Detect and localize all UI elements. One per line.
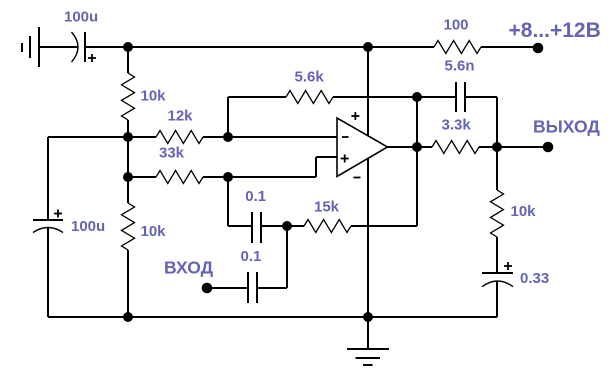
wire: top rail from R100 to +8...+12V terminal bbox=[481, 46, 538, 48]
svg-text:10k: 10k bbox=[141, 223, 167, 240]
svg-text:100: 100 bbox=[444, 17, 469, 34]
wire: left column from top node to upper 10k bbox=[127, 47, 129, 73]
wire: right column down to 10k bbox=[496, 147, 498, 190]
wire: node A to C3 bbox=[417, 96, 456, 98]
wire: down from C3 to right node bbox=[496, 97, 498, 147]
wire: bottom rail bbox=[48, 316, 497, 318]
op-amp negative supply mark bbox=[354, 177, 361, 179]
op-amp U1 bbox=[337, 112, 388, 178]
wire: feedback branch up from node row2 bbox=[227, 97, 229, 137]
wire: C3 right lead bbox=[465, 96, 497, 98]
svg-text:15k: 15k bbox=[314, 199, 340, 216]
capacitor C3 5.6n bbox=[456, 82, 465, 112]
wire: 33k left lead bbox=[128, 176, 156, 178]
resistor 10k (right, vertical) bbox=[491, 190, 504, 237]
svg-text:ВЫХОД: ВЫХОД bbox=[533, 117, 600, 137]
wire: 12k left lead bbox=[128, 136, 156, 138]
capacitor C2 100u (polarized, left vertical) bbox=[33, 210, 63, 233]
resistor 3.3k bbox=[432, 141, 479, 154]
wire: input terminal to C5 bbox=[207, 287, 248, 289]
node: right column top bbox=[492, 142, 502, 152]
node: divider row2 left bbox=[123, 132, 133, 142]
node: 33k / non-inverting branch bbox=[223, 172, 233, 182]
capacitor C4 0.1 (upper) bbox=[252, 212, 261, 243]
resistor 5.6k (feedback) bbox=[286, 91, 333, 104]
svg-text:0.1: 0.1 bbox=[245, 188, 266, 205]
wire: below C2 to bottom rail bbox=[47, 228, 49, 318]
wire: branch left from node row2 bbox=[48, 136, 128, 138]
wire: top supply rail from C1 to R100 bbox=[85, 46, 434, 48]
svg-text:100u: 100u bbox=[71, 218, 105, 235]
wire: to C4 left plate bbox=[228, 225, 252, 227]
wire: node A down through output node to feedback row bbox=[416, 97, 418, 226]
wire: 15k left lead bbox=[287, 225, 304, 227]
resistor 12k bbox=[156, 131, 203, 144]
svg-text:ВХОД: ВХОД bbox=[164, 258, 214, 278]
svg-text:3.3k: 3.3k bbox=[442, 117, 472, 134]
op-amp positive supply mark bbox=[351, 115, 359, 117]
wire: left column bottom to rail bbox=[127, 250, 129, 317]
resistor 15k bbox=[304, 220, 351, 233]
node: supply rail / op-amp V+ column bbox=[363, 42, 373, 52]
op-amp inverting input mark bbox=[342, 136, 349, 138]
wire: riser up to 15k node bbox=[286, 226, 288, 288]
ground (left, rotated, supply return) bbox=[22, 27, 39, 67]
resistor 10k (upper left, vertical) bbox=[122, 73, 135, 120]
svg-text:0.1: 0.1 bbox=[241, 248, 262, 265]
wire: C6 to bottom rail bbox=[496, 281, 498, 317]
node A: 5.6k / 5.6n junction bbox=[412, 92, 422, 102]
svg-text:10k: 10k bbox=[511, 203, 537, 220]
node: C4 / 15k junction bbox=[282, 221, 292, 231]
wire: step up to non-inverting level bbox=[315, 157, 317, 177]
capacitor C5 0.1 (input, lower) bbox=[248, 272, 257, 303]
svg-text:5.6n: 5.6n bbox=[445, 58, 475, 75]
node: op-amp output bbox=[412, 142, 422, 152]
wire: 5.6k right lead to node A bbox=[333, 96, 417, 98]
svg-text:10k: 10k bbox=[141, 88, 167, 105]
wire: to 5.6k left lead bbox=[228, 96, 286, 98]
op-amp non-inverting input mark bbox=[341, 158, 349, 160]
wire: C5 right plate to riser bbox=[257, 287, 287, 289]
wire: op-amp output bbox=[387, 146, 417, 148]
node: bottom rail left bbox=[123, 312, 133, 322]
node: top left supply bbox=[123, 42, 133, 52]
resistor 33k bbox=[156, 171, 203, 184]
node: divider row3 left bbox=[123, 172, 133, 182]
ground (bottom) bbox=[347, 349, 389, 365]
svg-text:5.6k: 5.6k bbox=[295, 69, 325, 86]
wire: supply vertical line to op-amp and ground node bbox=[367, 47, 369, 317]
wire: ground stub bbox=[367, 317, 369, 349]
wire: 3.3k to right node bbox=[479, 146, 497, 148]
wire: into op-amp non-inverting input bbox=[316, 156, 337, 158]
node: bottom rail ground bbox=[363, 312, 373, 322]
wire: left branch vertical down to C2 bbox=[47, 137, 49, 220]
wire: left ground to C1 bbox=[39, 46, 78, 48]
capacitor C6 0.33 (polarized) bbox=[482, 262, 513, 287]
wire: right node to output terminal bbox=[497, 146, 548, 148]
wire: 33k to step corner bbox=[203, 176, 316, 178]
svg-text:+8...+12В: +8...+12В bbox=[509, 19, 601, 42]
output terminal ВЫХОД bbox=[543, 142, 554, 153]
resistor 10k (lower left, vertical) bbox=[122, 203, 135, 250]
svg-text:12k: 12k bbox=[168, 108, 194, 125]
wire: node row3 down to C4 bbox=[227, 177, 229, 226]
wire: 10k to C6 bbox=[496, 237, 498, 273]
wire: C4 right plate to node bbox=[261, 225, 287, 227]
resistor 100 (top right, supply) bbox=[434, 41, 481, 54]
input terminal ВХОД bbox=[202, 283, 213, 294]
terminal +8...+12V bbox=[533, 43, 544, 54]
svg-text:100u: 100u bbox=[64, 9, 98, 26]
svg-text:0.33: 0.33 bbox=[520, 270, 549, 287]
wire: left column between nodes bbox=[127, 120, 129, 203]
wire: 15k right lead to feedback corner bbox=[351, 225, 417, 227]
wire: 12k to op-amp inverting input bbox=[203, 136, 337, 138]
capacitor C1 100u (polarized, top left) bbox=[72, 32, 97, 62]
wire: output node to 3.3k bbox=[417, 146, 432, 148]
node: 12k / op-amp inverting bbox=[223, 132, 233, 142]
svg-text:33k: 33k bbox=[159, 145, 185, 162]
